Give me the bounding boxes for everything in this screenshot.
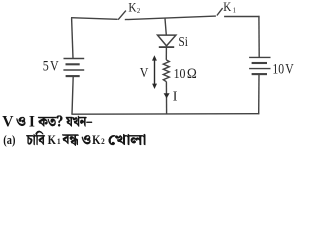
- svg-text:10: 10: [174, 65, 186, 81]
- wire left vertical bottom (5V battery to bottom-left corner): [72, 76, 73, 114]
- wire top-middle horizontal (K2 to K1): [125, 16, 216, 20]
- current arrow I head on middle branch: [164, 93, 170, 98]
- question line 2 bengali chabi: [26, 131, 45, 145]
- svg-text:K: K: [48, 133, 56, 147]
- question line 2 bengali bondho: [62, 135, 78, 146]
- svg-text:1: 1: [233, 6, 237, 15]
- svg-text:V: V: [2, 113, 14, 130]
- svg-text:(a): (a): [3, 133, 15, 147]
- wire top-right horizontal (K1 to top-right corner): [224, 16, 260, 18]
- voltage arrow V bottom head: [152, 84, 157, 89]
- diode D1 cathode bar: [159, 46, 174, 48]
- svg-text:2: 2: [101, 137, 105, 146]
- wire middle branch (T-junction to diode anode): [165, 19, 166, 35]
- voltage arrow V shaft: [154, 59, 156, 86]
- svg-text:10: 10: [272, 60, 284, 77]
- svg-text:Si: Si: [178, 34, 188, 49]
- svg-text:I: I: [29, 113, 35, 130]
- question line 2 bengali khola: [109, 134, 146, 145]
- battery B1 5V plates: [63, 59, 84, 77]
- wire resistor to bottom wire: [165, 82, 167, 114]
- battery B2 10V plates: [249, 57, 270, 74]
- question line 1 bengali koto?: [38, 116, 62, 127]
- wire top-left horizontal (corner to switch K2): [71, 18, 118, 20]
- wire bottom horizontal: [71, 113, 259, 116]
- question line 1 bengali jokhon-dash: [66, 116, 92, 127]
- wire diode cathode to resistor top: [165, 47, 167, 60]
- svg-text:K: K: [128, 0, 137, 15]
- question line 1 bengali O: [17, 117, 26, 126]
- wire right vertical top (corner to 10V battery): [258, 16, 260, 57]
- wire left vertical top (5V battery to top-left corner): [72, 18, 73, 58]
- switch K2 blade (open): [118, 11, 126, 20]
- svg-text:K: K: [92, 133, 100, 147]
- wire right vertical bottom (10V battery to bottom-right corner): [258, 74, 260, 114]
- svg-text:K: K: [223, 0, 231, 14]
- svg-text:1: 1: [57, 137, 61, 146]
- svg-text:Ω: Ω: [187, 66, 197, 82]
- resistor R1 10 ohm zigzag: [163, 60, 169, 82]
- diode D1 Si triangle (anode): [158, 35, 176, 46]
- svg-text:V: V: [285, 60, 294, 77]
- svg-text:V: V: [50, 57, 59, 74]
- svg-text:5: 5: [43, 57, 49, 74]
- question line 2 bengali O: [82, 135, 91, 144]
- svg-text:I: I: [173, 90, 178, 105]
- switch K1 blade (open): [217, 8, 223, 15]
- voltage arrow V top head: [152, 55, 157, 60]
- svg-text:2: 2: [137, 7, 141, 15]
- svg-text:V: V: [140, 64, 149, 80]
